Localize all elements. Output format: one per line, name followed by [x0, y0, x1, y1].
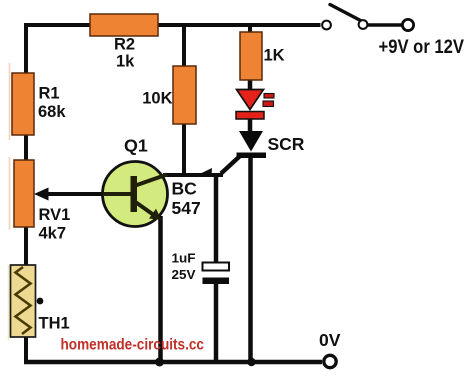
svg-text:0V: 0V [319, 330, 341, 350]
svg-text:Q1: Q1 [124, 136, 148, 156]
SCR cathode bar [237, 153, 267, 159]
switch S1 lever [330, 5, 361, 21]
LED D1 triangle [237, 90, 264, 110]
Q1 collector line [134, 175, 167, 187]
svg-text:1K: 1K [264, 47, 285, 65]
resistor 10K body [173, 66, 196, 124]
wire bottom rail [24, 360, 322, 365]
thermistor TH1 zigzag [16, 267, 31, 334]
gate arrowhead [199, 168, 213, 177]
wire 10K branch from top rail [182, 25, 186, 68]
junction dot SCR / bottom rail [247, 358, 255, 366]
wire LED cathode to SCR anode [248, 118, 253, 133]
capacitor C1 top plate [203, 263, 230, 271]
wire SCR cathode to bottom rail [248, 157, 253, 362]
svg-text:1uF: 1uF [172, 251, 196, 266]
switch S1 right contact [359, 20, 368, 29]
svg-text:68k: 68k [38, 103, 66, 121]
thermistor TH1 body [11, 265, 36, 337]
svg-text:25V: 25V [172, 267, 196, 282]
junction dot at TH1 [37, 298, 44, 305]
wire top-left corner (R1 top to R2 left) [26, 25, 90, 75]
svg-text:SCR: SCR [268, 134, 305, 154]
capacitor C1 bottom plate [203, 278, 230, 285]
switch S1 left contact [322, 21, 331, 30]
supply terminal ring [402, 19, 413, 30]
wire SCR gate diagonal [221, 156, 240, 174]
wire collector node horizontal [163, 173, 223, 177]
wire base inside Q1 [103, 192, 134, 196]
svg-text:1k: 1k [116, 53, 135, 71]
wire emitter to bottom rail [158, 216, 163, 362]
svg-text:R2: R2 [114, 36, 135, 54]
svg-text:4k7: 4k7 [39, 225, 67, 243]
wire TH1 to bottom rail [24, 335, 28, 362]
wire capacitor top branch [214, 175, 219, 263]
resistor R1 body [12, 73, 34, 135]
transistor Q1 circle [103, 162, 168, 227]
wire base (RV1 wiper to Q1 base) [44, 192, 133, 196]
svg-text:547: 547 [172, 198, 201, 218]
Q1 base bar [131, 176, 138, 212]
LED D1 cathode bar [236, 112, 264, 120]
wire 1K branch from top rail [248, 25, 252, 34]
wire RV1 to TH1 [24, 225, 28, 267]
svg-text:R1: R1 [39, 85, 60, 103]
svg-text:RV1: RV1 [39, 206, 71, 224]
wiper arrowhead into RV1 [34, 188, 49, 201]
svg-text:BC: BC [172, 179, 198, 199]
resistor R2 body [90, 14, 158, 36]
svg-text:10K: 10K [142, 90, 172, 108]
wire switch to supply terminal [368, 23, 403, 27]
junction dot emitter / bottom rail [155, 358, 164, 367]
resistor 1K body [240, 32, 262, 80]
potentiometer RV1 body [14, 160, 34, 227]
wire capacitor bottom branch [214, 283, 219, 362]
wire 10K bottom to collector node [182, 122, 186, 175]
wire 1K bottom to LED anode [248, 78, 253, 92]
LED light dash 1 [264, 94, 274, 99]
Q1 emitter arrowhead [149, 209, 162, 220]
SCR triangle [239, 131, 263, 152]
svg-text:homemade-circuits.cc: homemade-circuits.cc [61, 337, 205, 354]
Q1 emitter line [134, 201, 158, 218]
wire top rail right of R2 [158, 23, 321, 27]
svg-text:+9V or 12V: +9V or 12V [379, 37, 465, 58]
LED light dash 2 [263, 101, 274, 107]
svg-text:TH1: TH1 [39, 315, 70, 333]
0V terminal ring [324, 355, 336, 367]
wire R1 to RV1 [24, 133, 28, 162]
